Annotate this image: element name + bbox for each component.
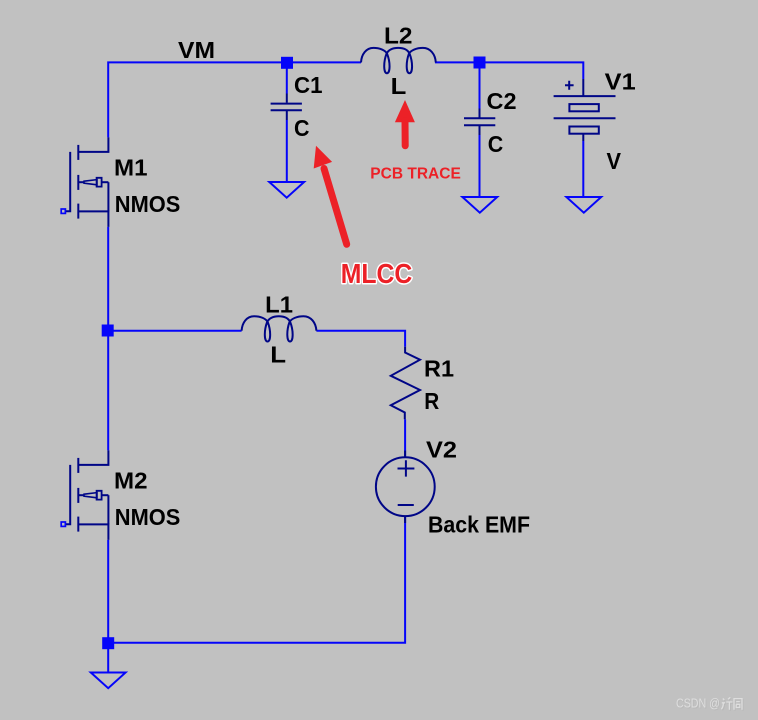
svg-text:M2: M2 (114, 468, 148, 494)
svg-text:V2: V2 (426, 437, 457, 463)
svg-text:CSDN @: CSDN @ (676, 696, 720, 710)
svg-text:MLCC: MLCC (341, 258, 413, 289)
svg-text:M1: M1 (114, 155, 148, 181)
svg-text:L: L (391, 73, 407, 99)
svg-text:NMOS: NMOS (115, 191, 181, 217)
svg-text:L2: L2 (384, 23, 413, 49)
svg-text:C2: C2 (487, 88, 517, 114)
svg-text:R: R (424, 388, 439, 414)
svg-text:V1: V1 (605, 69, 636, 95)
svg-text:NMOS: NMOS (115, 504, 181, 530)
svg-text:VM: VM (178, 37, 215, 63)
svg-text:Back EMF: Back EMF (428, 511, 530, 537)
svg-text:L1: L1 (265, 291, 293, 317)
svg-text:PCB TRACE: PCB TRACE (370, 166, 461, 183)
svg-text:V: V (607, 148, 622, 174)
svg-text:C1: C1 (294, 72, 323, 98)
svg-text:C: C (488, 131, 504, 157)
svg-text:R1: R1 (424, 355, 454, 381)
svg-text:C: C (294, 115, 310, 141)
svg-text:L: L (270, 341, 286, 367)
